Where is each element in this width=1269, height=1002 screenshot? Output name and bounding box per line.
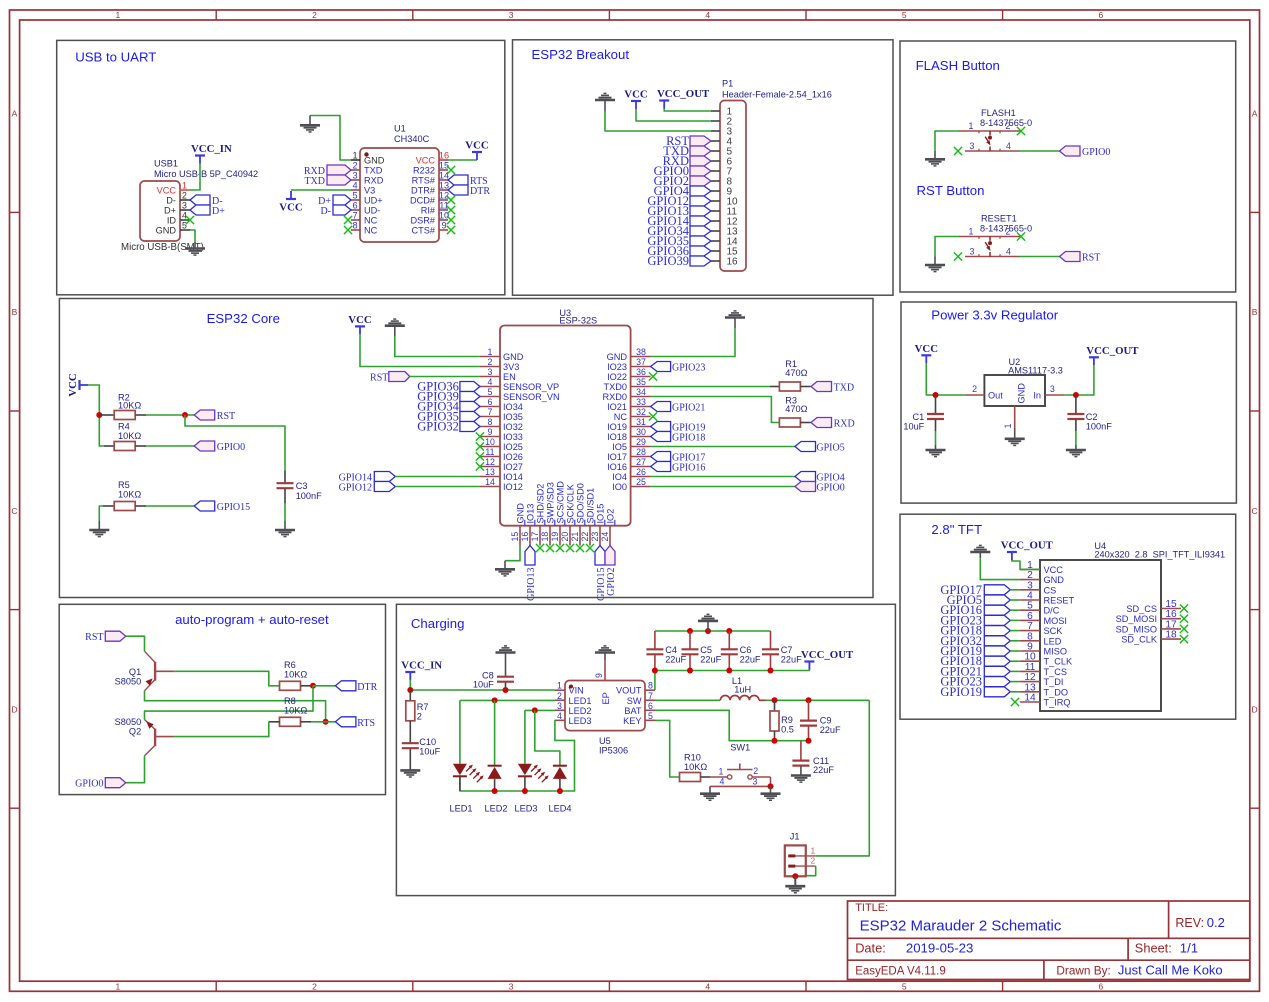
wire U3 pin38 GND to ground [651,328,735,357]
svg-text:IO35: IO35 [503,412,523,422]
svg-text:1: 1 [969,227,974,237]
svg-text:15: 15 [439,161,449,171]
svg-text:100nF: 100nF [296,491,322,501]
wire GPIO23 to U4 pin12 [1010,681,1020,683]
port DTR at U1 pin13 [448,185,490,197]
no-connect X at U3 pin10 [476,442,484,450]
ground above C8 [496,646,516,660]
port RST at P1 pin4 [666,134,711,148]
svg-text:4: 4 [182,211,187,221]
resistor R6 10K [280,660,312,690]
svg-text:UD-: UD- [364,206,380,216]
IC U2 AMS1117-3.3 [965,357,1065,429]
IC U5 IP5306 [555,660,655,755]
junction VCC_IN / R7 [407,687,413,693]
svg-text:4: 4 [557,711,562,721]
port GPIO39 at P1 pin16 [647,254,711,268]
junction bottom rail C5 [687,668,693,674]
svg-text:IO4: IO4 [612,472,627,482]
svg-text:Header-Female-2.54_1x16: Header-Female-2.54_1x16 [722,90,832,100]
svg-text:IO27: IO27 [503,462,523,472]
svg-text:C7: C7 [781,645,793,655]
svg-text:24: 24 [600,532,610,542]
wire U5 pin4 LED3/common rail [460,720,575,791]
svg-text:GPIO13: GPIO13 [526,568,537,601]
port GPIO36 at P1 pin15 [647,244,711,258]
svg-text:FLASH1: FLASH1 [981,108,1016,118]
ground above U3 pin1 [385,319,405,336]
ground below U3 pin15 [495,561,515,576]
net VCC flag below U1 pin4 wire [279,191,302,214]
wire VOUT pin8 up to cap bank [654,671,656,691]
resistor R7 2 [406,690,429,743]
svg-text:GND: GND [516,503,526,524]
wire VCC_OUT to U4 pin1 [1012,560,1040,569]
svg-text:32: 32 [636,407,646,417]
net VCC flag rotated left of R2 [67,373,88,396]
port GPIO5 at U4 pin4 [947,593,1011,607]
wire GPIO17 to U4 pin3 [1010,589,1020,591]
svg-text:EP: EP [601,692,611,704]
svg-text:Just Call Me Koko: Just Call Me Koko [1118,962,1223,977]
wire U5 pin5 KEY to R10 [655,720,680,777]
wire U1 pin16 VCC to VCC flag [448,159,477,161]
svg-text:8: 8 [648,681,653,691]
svg-text:Drawn By:: Drawn By: [1056,963,1110,977]
wire GPIO19 to U4 pin9 [1010,650,1020,652]
LED3/LED4 emission arrows [531,765,549,783]
svg-text:RST: RST [1082,253,1100,264]
svg-text:LED4: LED4 [549,804,572,814]
svg-text:36: 36 [636,367,646,377]
svg-text:VCC: VCC [465,140,488,152]
no-connect X at U3 pin32 [649,412,657,420]
svg-text:SDO/SD0: SDO/SD0 [576,483,586,523]
port GPIO15 at U3 pin23 [595,546,607,601]
svg-text:15: 15 [510,532,520,542]
port RST at RESET1 [1060,252,1101,264]
svg-text:4: 4 [705,982,710,992]
svg-text:GPIO18: GPIO18 [672,433,705,444]
ground below C3 [275,521,295,537]
svg-text:SHD/SD2: SHD/SD2 [536,484,546,524]
wire U5 pin6 BAT rail [655,710,809,740]
svg-text:D/C: D/C [1044,606,1060,616]
no-connect X at U3 pin22 [586,544,594,552]
svg-text:VCC: VCC [1044,565,1064,575]
svg-text:6: 6 [488,397,493,407]
svg-text:VCC: VCC [67,373,79,396]
svg-text:16: 16 [439,151,449,161]
wire U3 pin15 GND to ground [505,546,520,561]
wire RST node to C3 [185,415,285,471]
svg-text:6: 6 [1099,982,1104,992]
no-connect X at U4 pin14 T_IRQ [1011,698,1019,706]
connector J1 [785,832,816,877]
junction LED2 bottom rail [492,788,498,794]
svg-text:GPIO21: GPIO21 [672,403,705,414]
port GPIO12 at P1 pin10 [647,194,711,208]
svg-text:SD_CS: SD_CS [1126,604,1157,614]
wire DTR node to Q2 emitter rail [145,686,314,720]
svg-text:IO14: IO14 [503,472,523,482]
svg-text:LED1: LED1 [569,696,592,706]
resistor R10 10K [680,753,711,782]
svg-text:1: 1 [719,766,724,776]
wire C3 to ground [284,503,286,521]
svg-text:3: 3 [1050,384,1055,394]
svg-text:10KΩ: 10KΩ [118,401,141,411]
junction SW1 pin3 ground [768,783,774,789]
wire USB1 pin5 GND to ground [190,230,195,242]
svg-text:D-: D- [320,206,331,217]
port GPIO32 into U3 pin8 [417,420,480,434]
junction LED3 bottom rail [522,788,528,794]
wire GPIO23 to U4 pin6 [1010,619,1020,621]
svg-text:BAT: BAT [624,706,642,716]
svg-text:23: 23 [590,532,600,542]
no-connect X at FLASH1 pin2 [1017,127,1025,135]
svg-text:IO18: IO18 [607,432,627,442]
wire U3 pin25 IO0 to GPIO0 port [651,486,795,488]
svg-text:SWP/SD3: SWP/SD3 [546,482,556,523]
wire RST to Q1 collector [126,636,145,651]
svg-text:GPIO0: GPIO0 [1082,147,1110,158]
svg-text:SD_MISO: SD_MISO [1116,624,1157,634]
svg-text:6: 6 [1099,10,1104,20]
wire Q1 emitter to RTS node [145,691,326,722]
no-connect X at U3 pin36 [649,372,657,380]
no-connect X at RESET1 pin3 [954,252,962,260]
svg-text:IO25: IO25 [503,442,523,452]
net VCC_OUT flag at P1 pin1 [657,88,710,109]
svg-text:4: 4 [1006,141,1011,151]
svg-text:CTS#: CTS# [412,226,436,236]
svg-text:RTS#: RTS# [412,176,436,186]
svg-text:RXD0: RXD0 [602,392,627,402]
svg-text:10KΩ: 10KΩ [284,706,307,716]
svg-text:A: A [12,109,18,119]
svg-text:1uH: 1uH [734,685,751,695]
svg-text:T_DO: T_DO [1044,687,1069,697]
section box: USB to UART [57,40,505,294]
svg-text:SENSOR_VN: SENSOR_VN [503,392,560,402]
junction LED4 bottom rail [557,788,563,794]
junction J1 ground [792,873,798,879]
junction C2 / U2.3 rail [1073,392,1079,398]
junction C9 top [806,697,812,703]
port GPIO5 at U3 pin29 [795,442,845,454]
junction VCC rail / R2 [96,412,102,418]
svg-text:B: B [1252,307,1258,317]
svg-text:29: 29 [636,437,646,447]
svg-text:LED3: LED3 [569,716,592,726]
net VCC flag at U1 pin16 [465,140,488,161]
junction bottom rail C6 [726,668,732,674]
svg-text:14: 14 [439,171,449,181]
no-connect X at FLASH1 pin3 [954,147,962,155]
svg-text:TXD: TXD [834,383,855,394]
svg-text:Sheet:: Sheet: [1135,941,1172,956]
svg-text:5: 5 [648,711,653,721]
capacitor C10 10uF [402,737,441,770]
svg-text:4: 4 [488,377,493,387]
svg-text:IO5: IO5 [612,442,627,452]
svg-text:C2: C2 [1086,412,1098,422]
svg-text:1: 1 [811,846,816,855]
svg-text:IO21: IO21 [607,402,627,412]
ground below SW1 pin3 [761,786,781,800]
svg-text:IO15: IO15 [596,504,606,524]
capacitor C7 22uF [762,631,802,671]
junction top rail C5 [687,628,693,634]
svg-text:2: 2 [312,10,317,20]
svg-text:5: 5 [902,10,907,20]
capacitor C1 10uF [903,395,944,432]
no-connect X at U1 pin11 [447,206,455,214]
port GPIO16 at U3 pin27 [651,462,706,474]
port RST at R2 [194,410,235,422]
svg-text:IO32: IO32 [503,422,523,432]
svg-text:MISO: MISO [1044,647,1067,657]
wire LED4 feed down [535,710,560,765]
port RXD at P1 pin6 [663,154,711,168]
svg-text:IP5306: IP5306 [599,746,628,756]
svg-text:26: 26 [636,467,646,477]
wire VCC to P1 pin2 [636,109,711,121]
section box: auto-program + auto-reset [59,604,385,794]
ground at U1 pin1 net [300,116,320,132]
svg-text:Q1: Q1 [129,667,141,677]
no-connect X at U3 pin11 [476,452,484,460]
svg-text:V3: V3 [364,186,375,196]
wire R5 to GPIO15 port [146,505,194,507]
svg-text:27: 27 [636,457,646,467]
port D- at USB1 pin2 [190,195,223,207]
net VCC_OUT flag at U4 pin1 [1001,540,1054,561]
wire U3 pin29 IO5 to GPIO5 port [651,446,795,448]
no-connect X at U1 pin7 [344,216,352,224]
wire U3 pin34 RXD0 to R3 [651,397,780,423]
no-connect X at U1 pin12 [447,196,455,204]
connector P1 Header-Female-2.54_1x16 [711,79,832,271]
wire RESET1 pin1 to ground [935,237,959,257]
svg-text:R4: R4 [118,422,130,432]
capacitor C5 22uF [682,631,722,671]
svg-text:1: 1 [1003,424,1013,429]
svg-text:ESP32 Marauder 2 Schematic: ESP32 Marauder 2 Schematic [860,918,1062,935]
no-connect X at RESET1 pin2 [1017,232,1025,240]
ground below J1 [785,876,805,893]
svg-text:14: 14 [485,477,495,487]
svg-text:VOUT: VOUT [616,686,642,696]
svg-text:16: 16 [520,532,530,542]
wire DTR node to DTR port [313,685,335,687]
svg-text:GPIO0: GPIO0 [75,779,103,790]
no-connect X at U3 pin9 [476,432,484,440]
port TXD into U1 pin3 RXD [304,175,351,187]
diode LED2 [488,766,502,791]
wire GPIO5 to U4 pin4 [1010,599,1020,601]
svg-text:10KΩ: 10KΩ [684,762,707,772]
svg-text:2: 2 [1006,121,1011,131]
svg-text:R5: R5 [118,480,130,490]
wire GPIO14 to U3 pin13 [395,476,480,478]
svg-text:C6: C6 [740,645,752,655]
svg-text:2: 2 [972,384,977,394]
svg-text:TXD: TXD [364,166,383,176]
port GPIO0 at FLASH1 [1060,146,1111,158]
port GPIO34 at P1 pin13 [647,224,711,238]
svg-text:VCC_OUT: VCC_OUT [1001,540,1054,552]
wire U2 pin3 to VCC_OUT rail [1065,365,1094,395]
svg-text:LED3: LED3 [515,804,538,814]
svg-text:IO34: IO34 [503,402,523,412]
wire VCC to U3 pin2 3V3 [360,335,480,367]
svg-text:IO13: IO13 [526,504,536,524]
svg-text:MOSI: MOSI [1044,616,1067,626]
svg-text:11: 11 [485,447,494,457]
svg-text:5: 5 [182,221,187,231]
port GPIO19 at U4 pin9 [940,644,1010,658]
svg-text:12: 12 [439,191,449,201]
svg-text:3: 3 [352,171,357,181]
wire ground to U4 pin2 [980,558,1020,580]
svg-text:RI#: RI# [421,206,436,216]
no-connect X at U1 pin10 [447,216,455,224]
wire LED2 feed down [494,700,496,765]
svg-text:S8050: S8050 [115,717,142,727]
svg-text:GPIO5: GPIO5 [816,443,844,454]
svg-text:C10: C10 [419,737,436,747]
no-connect X at U1 pin15 [447,166,455,174]
svg-text:2: 2 [488,357,493,367]
svg-text:C4: C4 [665,645,677,655]
svg-text:37: 37 [636,357,646,367]
port GPIO14 into U3 pin13 [339,472,396,484]
port GPIO21 at U3 pin33 [651,402,706,414]
svg-text:3: 3 [970,246,975,256]
svg-text:IO22: IO22 [607,372,627,382]
svg-text:VCC_OUT: VCC_OUT [657,88,710,100]
svg-text:2: 2 [1006,226,1011,236]
title block frame [848,901,1250,980]
section box: FLASH/RST Buttons [900,41,1236,292]
title block Date row [855,941,973,956]
no-connect X at U4 pin17 [1180,625,1188,633]
svg-text:20: 20 [560,532,570,542]
svg-text:12: 12 [485,457,495,467]
port GPIO36 into U3 pin4 [417,380,480,394]
net VCC flag above U3 pin2 [348,314,371,335]
wire FLASH1 pin1 to ground [935,131,959,151]
svg-text:2: 2 [312,982,317,992]
svg-text:10KΩ: 10KΩ [118,490,141,500]
ground below U2 pin1 [1005,428,1025,445]
wire ground to U3 pin1 GND [395,336,480,357]
svg-text:DCD#: DCD# [410,196,436,206]
wire U1 pin1 GND to ground [310,116,351,161]
svg-text:8: 8 [352,221,357,231]
wire RST to U3 pin3 [410,376,480,378]
svg-text:ESP32 Core: ESP32 Core [207,311,280,326]
resistor R1 470 [770,359,811,391]
svg-text:22uF: 22uF [665,654,686,664]
wire Q1 base to R6 [174,671,280,686]
wire GPIO16 to U4 pin5 [1010,609,1020,611]
svg-text:28: 28 [636,447,646,457]
port GPIO0 input to Q2 [75,778,126,790]
svg-text:LED2: LED2 [569,706,592,716]
svg-text:1: 1 [116,982,121,992]
title block Drawn By [1056,962,1222,977]
svg-text:0.5: 0.5 [781,725,794,735]
port GPIO19 at U4 pin13 [940,685,1010,699]
junction R9 bottom [772,738,778,744]
svg-text:C1: C1 [913,412,925,422]
wire U5 pin2 LED1 rail [460,699,555,701]
svg-text:GPIO19: GPIO19 [940,685,982,699]
port GPIO16 at U4 pin5 [940,603,1010,617]
port GPIO0 at U3 pin25 [795,482,845,494]
wire J1 pin2 to ground rail [806,866,816,876]
svg-text:FLASH Button: FLASH Button [916,58,1000,73]
svg-text:VCC: VCC [348,314,371,326]
svg-text:7: 7 [488,407,493,417]
svg-text:240x320_2.8_SPI_TFT_ILI9341: 240x320_2.8_SPI_TFT_ILI9341 [1094,550,1225,560]
connector USB1 Micro USB-B 5P_C40942 [121,159,258,254]
ground above U5 pin9 EP [595,646,615,661]
svg-text:9: 9 [441,221,446,231]
svg-text:2: 2 [811,857,816,866]
push button FLASH1 8-1437565-0 [959,108,1032,151]
net VCC_IN flag charging input [401,660,442,681]
svg-text:T_DI: T_DI [1044,677,1064,687]
wire SW node to J1 pin1 [816,700,870,856]
no-connect X at U4 pin15 [1180,604,1188,612]
LED1/LED2 emission arrows [466,765,484,783]
ground below C10 [400,770,420,777]
svg-text:3: 3 [753,776,758,786]
svg-text:SCS/CMD: SCS/CMD [556,481,566,524]
svg-text:EN: EN [503,372,516,382]
svg-text:2: 2 [352,161,357,171]
svg-text:18: 18 [540,532,550,542]
svg-text:RST: RST [370,373,388,384]
ground at RESET1 [925,256,945,271]
svg-text:GPIO39: GPIO39 [647,254,689,268]
port GPIO0 at P1 pin7 [654,164,711,178]
junction LED4 feed [532,707,538,713]
svg-text:10KΩ: 10KΩ [284,670,307,680]
svg-text:CS: CS [1044,585,1057,595]
svg-text:22uF: 22uF [820,725,841,735]
wire VCC_IN to USB1 pin1 [190,164,200,191]
svg-text:4: 4 [705,10,710,20]
svg-text:9: 9 [594,673,604,678]
svg-text:C3: C3 [296,481,308,491]
wire R5 to ground [99,506,103,521]
svg-text:B: B [12,307,18,317]
net VCC_IN flag at USB1 pin1 [191,143,232,164]
svg-text:TXD: TXD [304,176,325,187]
svg-text:3: 3 [509,982,514,992]
wire LED1 feed down [459,700,461,763]
svg-text:TXD0: TXD0 [604,382,628,392]
svg-text:GPIO16: GPIO16 [672,463,705,474]
svg-text:R7: R7 [417,702,429,712]
port GPIO21 at U4 pin11 [940,664,1010,678]
